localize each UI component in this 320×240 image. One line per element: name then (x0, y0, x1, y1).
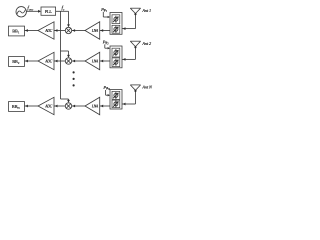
wire: mixer2 to ADC2 (54, 60, 65, 63)
phase shifter / VGA box PSN (110, 90, 122, 109)
node row 2 BB box BB2 (9, 57, 25, 67)
svg-text:PLL: PLL (45, 9, 52, 14)
mixer M1 (65, 27, 71, 33)
svg-text:BB1: BB1 (12, 29, 20, 35)
wire: phase box 1 output to LNA1 (100, 29, 110, 32)
wire: phase box 2 output to LNA2 (100, 60, 110, 63)
op-amp style triangle ADC N (38, 97, 54, 114)
wire: mixerN to ADCN (54, 105, 65, 108)
wire: ADC1 output to BB1 (25, 29, 39, 32)
wire: ADC2 output to BB2 (25, 60, 39, 63)
wire: LO feed into mixer M1 (67, 11, 70, 27)
svg-text:ADC: ADC (44, 59, 52, 63)
svg-text:BB2: BB2 (12, 59, 20, 65)
wire: mixer1 to ADC1 (54, 29, 65, 32)
svg-text:BBN: BBN (12, 104, 21, 110)
svg-text:Ant 2: Ant 2 (141, 41, 152, 46)
PLL box U1 (41, 7, 56, 15)
wire: antenna N to phase box N (122, 90, 135, 105)
dots: chain repetition ellipsis (73, 71, 75, 86)
node control label P-phi 1 (100, 7, 108, 13)
wire: control arrow into phase box 2 (105, 44, 110, 49)
node row 1 BB box BB1 (9, 26, 25, 36)
oscillator XO (16, 7, 26, 17)
wire: control arrow into phase box 1 (103, 12, 110, 18)
svg-text:LNA: LNA (91, 59, 99, 63)
wire: PLL output f_c line (56, 6, 69, 11)
svg-text:Ant 1: Ant 1 (141, 8, 151, 13)
antenna Ant N (130, 85, 153, 92)
wire: antenna 1 to phase box 1 (122, 14, 135, 31)
wire: LO feed into mixer MN (61, 99, 70, 103)
node row N BB box BBN (9, 102, 25, 112)
wire: LO feed into mixer M2 (61, 51, 70, 58)
phase shifter / VGA box PS1 (110, 13, 122, 35)
wire: LNA2 output to mixer M2 (72, 60, 85, 63)
wire: antenna 2 to phase box 2 (122, 47, 135, 61)
svg-text:ADC: ADC (44, 29, 52, 33)
wire: oscillator to PLL with f_osc label (26, 6, 41, 12)
wire: LNA1 output to mixer M1 (72, 29, 85, 32)
svg-text:fosc: fosc (27, 6, 33, 11)
mixer MN (65, 103, 71, 109)
svg-text:Ant N: Ant N (141, 85, 153, 90)
amplifier LNA 2 (85, 52, 100, 69)
wire: ADCN output to BBN (25, 105, 39, 108)
wire: control arrow into phase box N (106, 90, 110, 96)
op-amp style triangle ADC 2 (38, 52, 54, 69)
mixer M2 (65, 58, 71, 64)
op-amp style triangle ADC 1 (38, 22, 54, 39)
antenna Ant 1 (130, 8, 151, 15)
node control label P-phi N (102, 85, 110, 91)
node control label P-phi 2 (102, 40, 110, 46)
wire: LNAN output to mixer MN (72, 105, 85, 108)
amplifier LNA N (85, 97, 100, 114)
wire: LO distribution bus (60, 11, 62, 99)
svg-text:ADC: ADC (44, 104, 52, 108)
svg-text:LNA: LNA (91, 29, 99, 33)
wire: phase box N output to LNAN (100, 105, 110, 108)
phase shifter / VGA box PS2 (110, 46, 122, 68)
antenna Ant 2 (130, 41, 152, 48)
amplifier LNA 1 (85, 22, 100, 39)
svg-text:LNA: LNA (91, 104, 99, 108)
